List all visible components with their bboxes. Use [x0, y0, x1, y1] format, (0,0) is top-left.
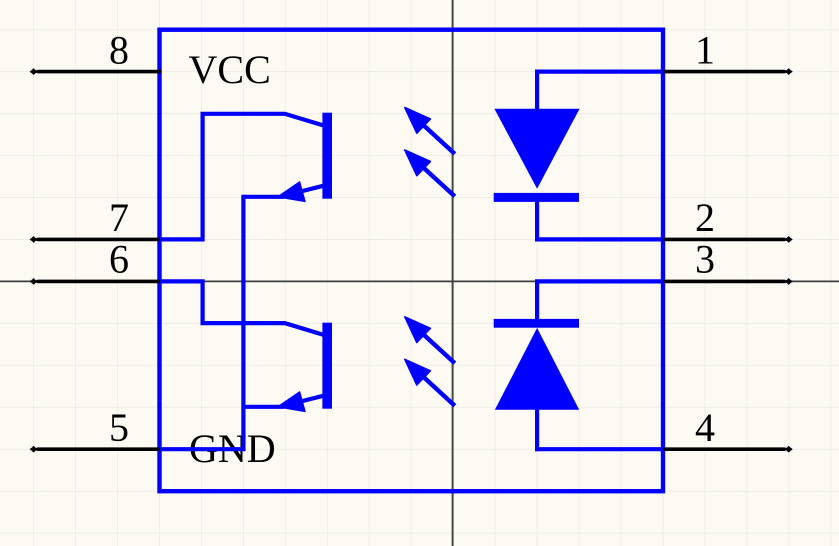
pin 3: [661, 236, 793, 285]
pin 2: [661, 195, 793, 244]
wire pin4 stub: [535, 447, 663, 451]
pin 5: [30, 405, 162, 453]
wire LED D2 anode: [535, 407, 539, 451]
svg-text:2: 2: [695, 195, 715, 240]
LED D1 triangle: [494, 109, 579, 189]
wire Q1 emitter horizontal: [243, 195, 284, 199]
svg-text:4: 4: [695, 405, 715, 450]
svg-text:3: 3: [695, 236, 715, 281]
component body U1: [160, 30, 664, 492]
light arrow 4: [405, 359, 455, 405]
LED D2 cathode bar: [494, 319, 579, 328]
wire pin1 stub: [535, 69, 663, 73]
light arrow 1: [405, 108, 455, 154]
wire pin5 stub: [160, 447, 246, 451]
wire LED D1 cathode: [535, 197, 539, 241]
wire LED D2 cathode: [535, 281, 539, 322]
transistor Q1 base bar: [322, 113, 332, 199]
origin axis horizontal: [0, 280, 839, 282]
transistor Q2 base bar: [322, 323, 332, 409]
wire LED D1 anode: [535, 72, 539, 112]
svg-text:6: 6: [109, 236, 129, 281]
transistor Q1 emitter diagonal: [288, 186, 323, 195]
LED D2 triangle: [495, 328, 579, 410]
svg-text:VCC: VCC: [189, 47, 271, 92]
wire pin3 stub: [535, 279, 663, 283]
wire emitter bus vertical to pin5: [241, 195, 245, 450]
svg-text:8: 8: [109, 28, 129, 73]
transistor Q2 emitter arrowhead: [278, 392, 305, 412]
pin 4: [661, 405, 793, 453]
svg-text:5: 5: [109, 405, 129, 450]
svg-text:7: 7: [109, 195, 129, 240]
wire pin2 stub: [535, 237, 663, 241]
pin 8: [30, 28, 162, 76]
light arrow 2: [405, 150, 455, 196]
wire pin7 to Q1 collector: [160, 114, 324, 240]
wire Q2 emitter horizontal: [243, 405, 284, 409]
pin 1: [661, 28, 793, 76]
pin 6: [30, 236, 162, 285]
transistor Q1 emitter arrowhead: [278, 182, 305, 202]
light arrow 3: [405, 317, 455, 363]
wire pin6 to Q2 collector: [160, 281, 324, 334]
pin 7: [30, 195, 162, 244]
transistor Q2 emitter diagonal: [288, 396, 323, 405]
origin axis vertical: [452, 0, 454, 546]
LED D1 cathode bar: [494, 193, 579, 202]
svg-text:1: 1: [695, 28, 715, 73]
